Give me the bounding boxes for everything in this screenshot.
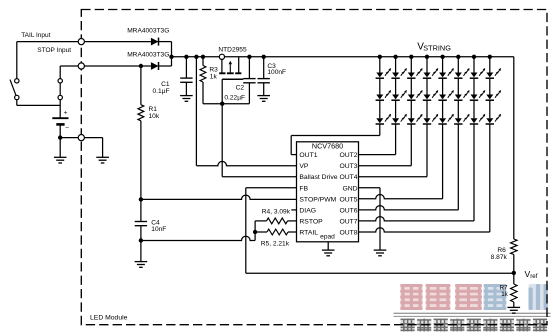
LED D21 xyxy=(376,90,391,100)
connector TAIL on module boundary xyxy=(78,39,84,45)
wire LED column 4 xyxy=(426,57,428,119)
connector GND on module boundary xyxy=(78,135,84,141)
svg-text:MRA4003T3G: MRA4003T3G xyxy=(127,51,169,58)
wire battery to grounds xyxy=(60,138,102,158)
wire LED column 3 xyxy=(410,57,412,119)
wire STOP drop xyxy=(59,66,61,79)
LED D33 xyxy=(407,114,422,124)
svg-text:R4, 3.09k: R4, 3.09k xyxy=(262,209,291,216)
resistor R6 8.87k xyxy=(511,239,517,273)
node R3 tap xyxy=(201,55,205,59)
LED D31 xyxy=(376,114,391,124)
wire OUT2 xyxy=(359,124,396,155)
node C4 bottom junction xyxy=(139,226,143,243)
svg-text:OUT6: OUT6 xyxy=(339,207,357,214)
label R5 2.21k xyxy=(261,240,290,247)
wire OUT5 xyxy=(359,124,443,199)
wire GND pin xyxy=(359,188,381,250)
wire OUT4 xyxy=(359,124,428,177)
wire C3 to ground xyxy=(263,83,265,96)
svg-text:10nF: 10nF xyxy=(151,226,166,233)
label R4 3.09k xyxy=(262,209,291,216)
LED D13 xyxy=(407,68,422,78)
wire VSTRING rail xyxy=(172,56,514,58)
node STOP/PWM tap xyxy=(139,197,143,201)
label STOP Input xyxy=(37,47,71,54)
wire STOP switch to battery xyxy=(59,100,61,106)
svg-text:R1: R1 xyxy=(149,106,158,113)
wire STOP input horizontal xyxy=(60,65,151,67)
label NCV7680 xyxy=(312,142,343,151)
wire LED column 1 xyxy=(379,57,381,119)
svg-text:epad: epad xyxy=(320,234,335,241)
LED D18 xyxy=(486,68,501,78)
label R3 1k xyxy=(209,66,218,80)
svg-text:−: − xyxy=(65,125,69,132)
ground (module right) xyxy=(96,157,109,163)
resistor R7 1k xyxy=(511,273,517,308)
wire OUT7 xyxy=(359,124,475,221)
svg-text:R5, 2.21k: R5, 2.21k xyxy=(261,240,290,247)
node C2 tap xyxy=(247,55,251,59)
svg-text:VP: VP xyxy=(299,163,309,170)
wire D2 to join xyxy=(158,65,171,67)
transistor Q1 NTD2955 xyxy=(219,54,243,79)
LED D32 xyxy=(391,114,406,124)
svg-text:STRING: STRING xyxy=(423,43,451,52)
resistor R3 1k xyxy=(200,57,222,104)
wire R4 left drop xyxy=(254,221,256,241)
label R1 10k xyxy=(149,106,160,120)
LED D12 xyxy=(391,68,406,78)
battery B1 xyxy=(52,105,69,137)
svg-text:OUT7: OUT7 xyxy=(339,218,357,225)
wire LED column 6 xyxy=(457,57,459,119)
wire LED column 8 xyxy=(489,57,491,119)
label C3 100nF xyxy=(267,63,286,76)
label TAIL Input xyxy=(21,32,50,39)
svg-text:100nF: 100nF xyxy=(267,69,286,76)
wire OUT6 xyxy=(359,124,459,210)
svg-text:LED Module: LED Module xyxy=(90,315,128,322)
label MRA4003T3G (D2) xyxy=(127,51,169,58)
svg-text:C1: C1 xyxy=(161,81,170,88)
node diode join xyxy=(169,55,173,59)
node LED column 3 tap xyxy=(409,55,413,59)
svg-text:OUT2: OUT2 xyxy=(339,152,357,159)
wire C2 bottom to gate node xyxy=(222,83,249,104)
op-amp U1 NCV7680 box xyxy=(297,142,359,242)
LED D22 xyxy=(391,90,406,100)
node LED column 2 tap xyxy=(393,55,397,59)
wire TAIL drop xyxy=(16,42,18,79)
svg-text:OUT4: OUT4 xyxy=(339,174,357,181)
ground (C4) xyxy=(135,262,148,268)
svg-text:MRA4003T3G: MRA4003T3G xyxy=(127,27,169,34)
LED D23 xyxy=(407,90,422,100)
svg-text:NCV7680: NCV7680 xyxy=(312,142,343,151)
svg-text:DIAG: DIAG xyxy=(299,207,316,214)
svg-text:0.1µF: 0.1µF xyxy=(153,88,170,95)
svg-text:STOP/PWM: STOP/PWM xyxy=(299,196,336,203)
node LED column 6 tap xyxy=(456,55,460,59)
LED D15 xyxy=(438,68,453,78)
label VSTRING xyxy=(417,42,451,53)
label MRA4003T3G (D1) xyxy=(127,27,169,34)
LED D26 xyxy=(454,90,469,100)
node R4/R5 junction xyxy=(253,230,257,234)
label C1 0.1uF xyxy=(153,81,170,95)
label epad xyxy=(320,234,335,241)
node C1 tap xyxy=(184,55,188,59)
node LED column 5 tap xyxy=(440,55,444,59)
resistor R4 3.09k xyxy=(255,218,296,224)
ground (GND pin) xyxy=(374,250,387,256)
LED D38 xyxy=(486,114,501,124)
node gate junction xyxy=(220,102,224,106)
svg-text:TAIL Input: TAIL Input xyxy=(21,32,50,39)
svg-text:C2: C2 xyxy=(236,85,245,92)
diode D1 MRA4003T3G (TAIL) xyxy=(151,38,159,46)
LED D14 xyxy=(423,68,438,78)
capacitor C1 0.1uF xyxy=(180,57,192,83)
node VP tap xyxy=(194,55,198,59)
ground (epad) xyxy=(322,250,335,256)
LED D36 xyxy=(454,114,469,124)
node Vref xyxy=(512,271,516,275)
node R1 tap on STOP line xyxy=(139,64,143,68)
LED D17 xyxy=(470,68,485,78)
svg-text:OUT1: OUT1 xyxy=(299,152,317,159)
wire D1 to join xyxy=(158,42,171,66)
svg-text:RSTOP: RSTOP xyxy=(299,218,323,225)
capacitor C4 10nF xyxy=(135,199,147,225)
label LED Module xyxy=(90,315,128,322)
label C4 10nF xyxy=(151,219,166,233)
svg-text:R3: R3 xyxy=(209,66,218,73)
wire VP line xyxy=(196,57,296,166)
svg-text:FB: FB xyxy=(299,185,308,192)
svg-text:0.22µF: 0.22µF xyxy=(224,94,245,101)
node LED column 4 tap xyxy=(425,55,429,59)
wire left ground drop xyxy=(59,138,61,158)
svg-text:ref: ref xyxy=(530,273,538,280)
svg-text:1k: 1k xyxy=(210,74,218,81)
label C2 0.22uF xyxy=(224,85,245,102)
LED D37 xyxy=(470,114,485,124)
node C3 tap xyxy=(262,55,266,59)
LED D27 xyxy=(470,90,485,100)
wire OUT3 xyxy=(359,124,412,166)
svg-text:8.87k: 8.87k xyxy=(491,254,508,261)
node LED column 1 tap xyxy=(378,55,382,59)
wire TAIL switch to common xyxy=(17,100,60,106)
svg-text:NTD2955: NTD2955 xyxy=(218,47,247,54)
switch S2 STOP (closed) xyxy=(58,79,62,100)
LED D24 xyxy=(423,90,438,100)
svg-text:OUT8: OUT8 xyxy=(339,230,357,237)
watermark double underline xyxy=(394,313,551,316)
wire RTAIL feed xyxy=(141,236,255,240)
wire FB xyxy=(246,188,514,273)
svg-text:STOP Input: STOP Input xyxy=(37,47,71,54)
ground (R7) xyxy=(508,307,521,313)
label NTD2955 xyxy=(218,47,247,54)
label R7 1k xyxy=(500,285,509,298)
svg-text:GND: GND xyxy=(342,185,357,192)
wire OUT8 xyxy=(359,124,490,232)
wire LED column 2 xyxy=(395,57,397,119)
LED D11 xyxy=(376,68,391,78)
diode D2 MRA4003T3G (STOP) xyxy=(151,62,159,70)
wire LED column 5 xyxy=(442,57,444,119)
pin labels U1 xyxy=(299,152,357,236)
ground (battery left) xyxy=(54,157,67,163)
node LED column 8 tap xyxy=(488,55,492,59)
LED D35 xyxy=(438,114,453,124)
node LED column 7 tap xyxy=(472,55,476,59)
LED D28 xyxy=(486,90,501,100)
svg-text:RTAIL: RTAIL xyxy=(299,230,318,237)
svg-text:Ballast Drive: Ballast Drive xyxy=(299,174,337,181)
connector STOP on module boundary xyxy=(78,63,84,69)
resistor R1 10k xyxy=(138,66,144,199)
wire right bus drop xyxy=(513,57,515,239)
wire epad to ground xyxy=(327,242,329,250)
capacitor C3 100nF xyxy=(258,57,270,83)
capacitor C2 0.22uF xyxy=(243,57,255,83)
LED D25 xyxy=(438,90,453,100)
wire ballast drive xyxy=(222,104,296,177)
wire STOP/PWM xyxy=(141,195,297,199)
wire LED column 7 xyxy=(473,57,475,119)
node battery negative junction xyxy=(58,135,62,139)
svg-text:1k: 1k xyxy=(501,291,508,298)
label Vref xyxy=(525,269,538,280)
switch S1 TAIL (open) xyxy=(10,79,19,100)
resistor R5 2.21k xyxy=(255,229,296,235)
LED D34 xyxy=(423,114,438,124)
svg-text:OUT3: OUT3 xyxy=(339,163,357,170)
svg-text:10k: 10k xyxy=(149,113,160,120)
wire TAIL input horizontal xyxy=(17,41,151,43)
ground (C1) xyxy=(180,96,193,102)
wire C1 to ground xyxy=(185,82,187,95)
svg-text:R6: R6 xyxy=(497,247,506,254)
LED module dashed border xyxy=(81,10,547,325)
ground (C3) xyxy=(257,96,270,102)
label R6 8.87k xyxy=(491,247,508,261)
wire OUT1 route xyxy=(291,124,380,155)
watermark small gray text 射频和天线设计专家 xyxy=(401,319,548,332)
svg-text:+: + xyxy=(64,110,68,117)
wire C4 to ground xyxy=(140,241,142,262)
pin DIAG stub xyxy=(291,209,296,211)
watermark big text 易迪拓培训 xyxy=(400,284,548,310)
svg-text:OUT5: OUT5 xyxy=(339,196,357,203)
wire gate drop xyxy=(221,79,223,104)
LED D16 xyxy=(454,68,469,78)
